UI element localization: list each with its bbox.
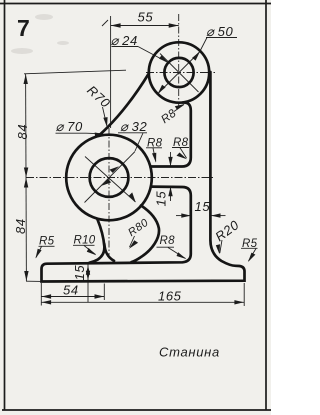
svg-text:⌀ 70: ⌀ 70 (56, 119, 83, 134)
svg-text:R10: R10 (74, 235, 96, 247)
svg-text:55: 55 (138, 10, 154, 25)
svg-text:R8: R8 (160, 235, 176, 247)
svg-text:7: 7 (17, 15, 30, 41)
svg-text:165: 165 (158, 289, 182, 304)
svg-text:15: 15 (72, 265, 87, 281)
svg-text:84: 84 (15, 124, 30, 140)
svg-text:54: 54 (63, 283, 79, 298)
svg-text:84: 84 (13, 218, 28, 234)
svg-text:R8: R8 (147, 138, 163, 150)
svg-text:15: 15 (195, 199, 211, 214)
svg-text:⌀ 24: ⌀ 24 (111, 33, 138, 48)
svg-text:R5: R5 (242, 238, 258, 250)
svg-text:Станина: Станина (159, 345, 220, 360)
svg-text:⌀ 32: ⌀ 32 (120, 119, 147, 134)
svg-text:⌀ 50: ⌀ 50 (206, 24, 233, 39)
svg-text:R8: R8 (173, 137, 189, 149)
svg-text:15: 15 (154, 191, 169, 207)
svg-text:R5: R5 (39, 236, 55, 248)
